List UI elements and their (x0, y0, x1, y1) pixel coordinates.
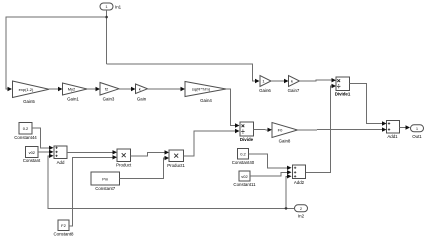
wire Product1 output up to Divide input2 (184, 131, 236, 156)
gain Gain8 (272, 123, 298, 144)
wire In1 stem down (106, 10, 108, 64)
svg-text:0.2: 0.2 (23, 126, 29, 131)
svg-text:Gain7: Gain7 (288, 88, 300, 93)
wire In2 left and up to Add input3 (48, 156, 295, 209)
svg-text:Constant44: Constant44 (14, 135, 37, 140)
wire Product output to Product1 input1 (131, 152, 165, 156)
svg-text:Gain1: Gain1 (67, 97, 79, 102)
divide block Divide (240, 122, 254, 142)
node junction In1 branch (105, 16, 108, 19)
wire In2 branch up to Add2 input3 (286, 176, 287, 208)
svg-text:0.2: 0.2 (240, 152, 246, 157)
wire Gain3 to Gain (119, 88, 131, 90)
outport Out1 (411, 125, 424, 139)
svg-text:Divide: Divide (240, 137, 254, 142)
svg-text:Product1: Product1 (167, 163, 185, 168)
svg-text:F2: F2 (61, 223, 66, 228)
gain Gain7 (288, 76, 300, 94)
svg-text:Gain3: Gain3 (103, 97, 115, 102)
svg-text:k: k (291, 79, 293, 84)
svg-text:Add2: Add2 (294, 180, 305, 185)
svg-text:In1: In1 (115, 4, 122, 9)
svg-text:Constant11: Constant11 (233, 182, 256, 187)
product block Product1 (167, 150, 185, 168)
wire In1 branch left to Gain5 (6, 17, 107, 89)
svg-text:Gain4: Gain4 (200, 98, 212, 103)
svg-text:Constant40: Constant40 (232, 160, 255, 165)
wire Gain7 to Divide1 input1 (300, 79, 332, 82)
svg-text:F0: F0 (278, 127, 283, 132)
inport In2 (295, 205, 308, 219)
svg-text:Constant7: Constant7 (95, 186, 116, 191)
wire Divide1 output down to Add1 input1 (350, 84, 383, 124)
wire Gain1 to Gain3 (87, 88, 96, 90)
wire Constant to Add input2 (38, 151, 49, 153)
wire Add output to Product input1 (67, 151, 113, 153)
wire Gain8 output to Add1 input2 (298, 129, 383, 131)
svg-text:Out1: Out1 (412, 134, 422, 139)
svg-text:k: k (139, 86, 141, 91)
gain Gain4 (185, 82, 226, 103)
svg-text:Gain6: Gain6 (259, 88, 271, 93)
svg-text:Constant: Constant (23, 158, 41, 163)
svg-text:My2: My2 (68, 87, 76, 92)
svg-text:In2: In2 (298, 214, 305, 219)
constant Constant (23, 147, 41, 164)
svg-text:Divide1: Divide1 (335, 91, 351, 96)
divide block Divide1 (335, 77, 351, 96)
node junction In2 branch (285, 207, 288, 210)
svg-text:Add: Add (57, 160, 65, 165)
wire In1 upper branch to Gain6 (107, 64, 256, 81)
svg-text:sq(R*T/m): sq(R*T/m) (192, 86, 211, 91)
svg-text:Product: Product (116, 162, 132, 167)
wire Gain to Gain4 (148, 88, 181, 90)
wire Constant11 to Add2 input2 (250, 172, 287, 176)
svg-text:Gain: Gain (137, 97, 147, 102)
inport In1 (100, 3, 122, 10)
gain Gain1 (63, 83, 88, 102)
product block Product (116, 149, 132, 167)
wire Constant7 up to Product1 input2 (120, 158, 165, 178)
gain Gain (136, 84, 148, 102)
wire Gain5 to Gain1 (49, 88, 58, 90)
constant Constant8 (53, 220, 74, 237)
constant Constant40 (232, 149, 255, 165)
wire Constant8 up to Product input2 (69, 157, 113, 226)
wire Add2 output up to Divide1 input2 (306, 86, 332, 173)
wire Gain4 down to Divide input1 (226, 89, 235, 126)
sum block Add2 (293, 165, 306, 185)
svg-text:v02: v02 (29, 150, 36, 155)
svg-text:Gain8: Gain8 (279, 139, 291, 144)
wire Gain6 to Gain7 (271, 80, 284, 82)
sum block Add (54, 146, 67, 165)
gain Gain5 (13, 81, 50, 104)
svg-text:Add1: Add1 (387, 134, 398, 139)
svg-text:Constant8: Constant8 (53, 232, 74, 237)
gain Gain3 (100, 83, 119, 102)
wire Constant40 to Add2 input1 (249, 154, 288, 168)
wire Divide output to Gain8 (254, 129, 268, 131)
constant Constant44 (14, 123, 37, 140)
svg-text:Gain5: Gain5 (23, 99, 35, 104)
wire Constant44 to Add input1 (32, 128, 49, 148)
svg-text:exp(1.2): exp(1.2) (19, 87, 34, 92)
constant Constant11 (233, 171, 256, 187)
svg-text:v02: v02 (241, 174, 248, 179)
wire Add1 to Out1 (400, 127, 406, 129)
constant Constant7 (91, 172, 120, 191)
sum block Add1 (387, 121, 400, 140)
svg-text:Pm: Pm (102, 176, 109, 181)
gain Gain6 (259, 76, 271, 94)
